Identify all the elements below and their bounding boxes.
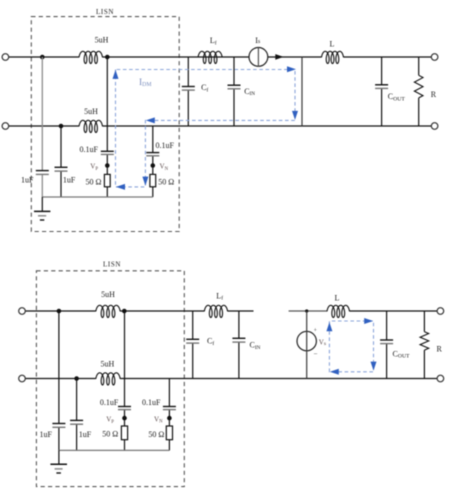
node junction dot - 1uF tap on N line [59,124,64,129]
capacitor 0.1uF VP plates (bottom circuit) [118,406,131,408]
resistor 50 ohm VN wire lower (bottom circuit) [168,440,170,451]
svg-text:5uH: 5uH [101,359,115,368]
ground symbol (bottom circuit) [58,450,60,464]
capacitor 0.1uF VP branch wire (top circuit) [106,57,108,151]
terminal P input (top circuit) [2,54,9,61]
resistor 50 ohm VN wire upper (bottom circuit) [168,420,170,426]
svg-text:0.1uF: 0.1uF [80,145,99,154]
IDM loop arrow down (inner vertical) [142,177,148,186]
svg-text:R: R [437,345,443,354]
terminal N input (top circuit) [2,123,9,130]
svg-text:1uF: 1uF [63,175,76,184]
capacitor 1uF #1 wire (bottom circuit) [58,311,60,423]
svg-text:VN: VN [154,415,163,424]
terminal N input (bottom circuit) [19,375,26,382]
svg-text:LISN: LISN [96,8,114,16]
resistor R wire upper (bottom circuit) [423,311,425,332]
wire N rail right segment (bottom circuit) [120,378,437,380]
terminal output + (bottom circuit) [437,308,444,315]
IDM loop arrow left (mid horizontal) [146,117,155,123]
capacitor COUT plates (top circuit) [375,84,388,86]
capacitor 1uF #2 plates (top circuit) [55,166,68,168]
svg-text:Lf: Lf [216,291,223,301]
loop arrow left (bottom side, bottom circuit) [330,369,339,375]
node junction dot - 1uF tap on P line [40,55,45,60]
wire L coil to output port (top rail right) [344,56,432,58]
resistor 50 ohm VN body (bottom circuit) [166,426,172,440]
inductor L (top circuit) [322,51,344,63]
wire P input segment (bottom circuit) [25,310,96,312]
wire P rail to current source [103,56,249,58]
resistor R wire lower (top circuit) [418,98,420,126]
node VN measurement dot (top circuit) [151,163,156,168]
capacitor COUT branch wire (top circuit) [381,57,383,85]
svg-text:0.1uF: 0.1uF [156,141,175,150]
node junction dot - 1uF tap on N line (bottom circuit) [74,376,79,381]
capacitor 1uF #1 plates (top circuit) [36,170,49,172]
wire L to output (bottom circuit) [350,310,438,312]
svg-text:LISN: LISN [103,260,121,268]
svg-text:0.1uF: 0.1uF [142,398,161,407]
svg-text:1uF: 1uF [39,430,52,439]
svg-text:50 Ω: 50 Ω [158,177,174,186]
capacitor Cf branch wire (bottom circuit) [192,311,194,339]
LISN enclosure box (top circuit) [31,17,179,232]
resistor 50 ohm VP wire lower (top) [106,187,108,197]
current source Is circle (top circuit) [249,48,268,67]
node VN measurement dot (bottom circuit) [167,416,172,421]
node junction dot - VP branch tap on P line [105,55,110,60]
capacitor COUT plates (bottom circuit) [380,339,393,341]
wire P input segment (top rail left) [9,56,79,58]
svg-text:5uH: 5uH [101,290,115,299]
voltage source Vs wire through (bottom circuit) [306,311,308,379]
resistor 50 ohm VN wire lower (top) [152,187,154,197]
terminal output - (bottom circuit) [437,375,444,382]
inductor 5uH (N line, top circuit) [79,120,103,132]
capacitor CIN branch wire (bottom circuit) [238,311,240,338]
resistor 50 ohm VP wire upper (top) [106,168,108,175]
svg-text:R: R [431,90,437,99]
loop arrow down (right side, bottom circuit) [371,362,377,371]
node junction dot - VP branch tap (bottom circuit) [122,309,127,314]
resistor 50 ohm VN wire upper (top) [152,168,154,175]
node VP measurement dot (bottom circuit) [122,416,127,421]
IDM loop arrow right (top side) [287,66,296,72]
svg-text:0.1uF: 0.1uF [100,398,119,407]
capacitor Cf plates (bottom circuit) [186,338,199,340]
capacitor 1uF #1 plates (bottom circuit) [52,423,65,425]
terminal output - (top circuit) [431,123,438,130]
capacitor 1uF #1 wire (top circuit) [41,57,43,171]
capacitor 0.1uF VN plates (top circuit) [146,152,159,154]
svg-text:IDM: IDM [139,78,152,88]
svg-text:50 Ω: 50 Ω [102,430,118,439]
LISN enclosure box (bottom circuit) [36,271,184,487]
ground bus wire (top circuit) [42,196,153,198]
node junction dot - Vs tap (bottom circuit) [305,309,308,312]
node VP measurement dot (top circuit) [105,163,110,168]
node junction dot - 1uF tap on P line (bottom circuit) [57,309,62,314]
svg-text:CIN: CIN [250,341,261,351]
svg-text:−: − [314,350,318,358]
capacitor 0.1uF VN branch wire (bottom circuit) [168,379,170,407]
resistor R zigzag (top circuit) [414,75,423,98]
wire current source to L coil [268,56,322,58]
resistor 50 ohm VP wire lower (bottom circuit) [124,440,126,451]
capacitor COUT branch wire (bottom circuit) [386,311,388,340]
svg-text:VN: VN [160,163,169,172]
wire N input segment (bottom rail left) [9,125,79,127]
wire P rail to Lf (bottom circuit) [120,310,204,312]
terminal P input (bottom circuit) [19,308,26,315]
IDM loop arrow down (right side) [292,111,298,120]
capacitor CIN plates (bottom circuit) [232,337,245,339]
loop arrow up (left side, bottom circuit) [326,322,332,331]
capacitor 0.1uF VN plates (bottom circuit) [163,406,176,408]
wire N input segment (bottom circuit) [25,378,96,380]
inductor L (bottom circuit) [327,305,350,317]
current direction arrow after Is [275,54,283,60]
svg-text:CIN: CIN [244,87,255,97]
svg-text:+: + [314,328,318,334]
resistor 50 ohm VP body (top circuit) [104,174,110,186]
wire Lf to open switch node (bottom circuit) [228,310,254,312]
resistor 50 ohm VP wire upper (bottom circuit) [124,420,126,426]
capacitor 0.1uF VP plates (top circuit) [101,150,114,152]
svg-text:1uF: 1uF [21,175,34,184]
svg-text:COUT: COUT [393,349,411,359]
capacitor 0.1uF VN branch wire (top circuit) [152,126,154,153]
svg-text:50 Ω: 50 Ω [86,177,102,186]
capacitor 0.1uF VP branch wire (bottom circuit) [124,311,126,406]
capacitor CIN branch wire (top circuit) [233,57,235,85]
noise loop dashed rectangle (bottom circuit) [329,321,373,372]
capacitor 1uF #2 wire (top circuit) [60,126,62,167]
svg-text:COUT: COUT [388,92,406,102]
wire vertical link node (top circuit) [301,57,303,126]
resistor R wire lower (bottom circuit) [423,350,425,378]
svg-text:VP: VP [106,416,114,425]
IDM loop arrow up (left side) [113,70,119,79]
inductor 5uH (N line, bottom circuit) [96,373,120,385]
wire N rail right segment [103,125,432,127]
inductor 5uH (P line, top circuit) [79,51,103,63]
capacitor Cf plates (top circuit) [182,86,195,88]
svg-text:L: L [334,293,339,302]
svg-text:5uH: 5uH [95,35,109,44]
resistor 50 ohm VP body (bottom circuit) [121,426,127,440]
ground bus wire (bottom circuit) [59,449,169,451]
capacitor 1uF #2 wire (bottom circuit) [76,379,78,421]
svg-text:Is: Is [255,36,261,45]
wire open gap right side to L (bottom circuit) [289,310,327,312]
svg-text:5uH: 5uH [84,107,98,116]
inductor 5uH (P line, bottom circuit) [96,305,120,317]
inductor Lf (top circuit) [198,51,222,63]
svg-text:Vs: Vs [319,339,326,347]
noise current loop IDM dashed path (top circuit) [116,70,296,187]
capacitor 1uF #2 plates (bottom circuit) [70,419,83,421]
svg-text:Cf: Cf [207,337,214,347]
svg-text:Cf: Cf [201,83,208,93]
capacitor Cf branch wire (top circuit) [187,57,189,86]
resistor R wire upper (top circuit) [418,57,420,75]
ground symbol (top circuit) [41,197,43,211]
svg-text:L: L [330,40,335,49]
IDM loop arrow left (bottom side) [116,184,125,190]
svg-text:1uF: 1uF [79,430,92,439]
svg-text:VP: VP [90,163,98,172]
resistor R zigzag (bottom circuit) [420,332,429,350]
inductor Lf (bottom circuit) [204,305,227,317]
svg-text:Lf: Lf [210,36,217,46]
loop arrow right (top side, bottom circuit) [364,318,373,324]
voltage source Vs circle (bottom circuit) [297,331,316,350]
resistor 50 ohm VN body (top circuit) [150,174,156,186]
svg-text:50 Ω: 50 Ω [148,430,164,439]
terminal output + (top circuit) [431,54,438,61]
capacitor CIN plates (top circuit) [228,84,241,86]
